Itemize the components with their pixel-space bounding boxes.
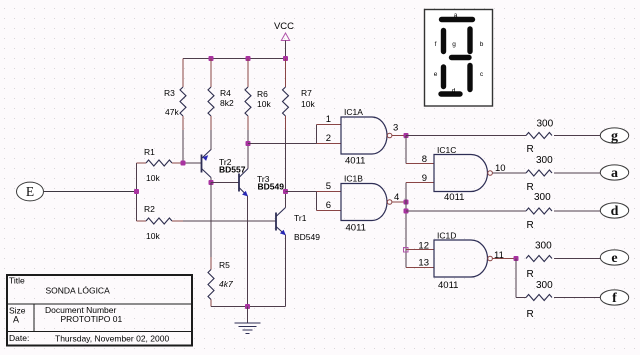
port e [600,250,628,265]
segment g [452,55,470,60]
pin 3 [392,135,406,137]
seven segment display [425,10,493,107]
port g [600,128,628,143]
resistor R6 10k [247,59,249,88]
pin 9 [406,182,434,184]
svg-text:R2: R2 [144,204,155,214]
port a [600,165,628,180]
svg-text:8: 8 [422,154,427,165]
svg-text:A: A [13,315,19,325]
wire E to node [44,191,137,193]
svg-text:300: 300 [536,155,553,166]
svg-text:R: R [527,269,534,280]
segment f [441,31,446,52]
svg-text:1: 1 [326,114,331,125]
svg-text:g: g [611,129,618,144]
resistor R3 47k [182,59,184,88]
nand gate IC1D 4011 [434,240,488,277]
wire top VCC rail [183,58,286,60]
junction pin12 square [404,248,409,253]
svg-text:IC1B: IC1B [344,174,363,184]
svg-text:d: d [611,204,619,219]
svg-text:Title: Title [9,276,25,286]
pin 12 [406,249,434,251]
resistor R1 10k [136,163,138,192]
svg-text:4011: 4011 [346,223,366,234]
port E [17,182,44,201]
svg-text:10k: 10k [146,173,160,183]
svg-text:a: a [611,166,618,181]
segment b [467,29,472,52]
svg-text:b: b [480,41,484,48]
svg-text:2: 2 [326,133,331,144]
svg-text:12: 12 [418,241,429,252]
svg-text:g: g [452,41,456,48]
pin 2 [317,143,342,145]
svg-text:R3: R3 [164,88,175,98]
svg-text:Tr1: Tr1 [294,213,307,223]
wire e/f drop [515,259,517,298]
junction row d [404,209,409,214]
ground [247,307,249,323]
svg-text:SONDA LÓGICA: SONDA LÓGICA [46,286,111,296]
title block [7,275,192,346]
nand gate IC1A 4011 [341,117,387,154]
svg-text:VCC: VCC [274,21,294,32]
wire VCC stub [285,41,287,59]
svg-text:IC1D: IC1D [437,231,456,241]
svg-text:E: E [26,184,34,199]
wire row d [406,210,526,212]
svg-text:3: 3 [393,123,398,134]
junction R3/R1/Tr2 base [181,161,186,166]
resistor R4 8k2 [210,59,212,88]
resistor 300 R (row d) [526,208,552,214]
svg-text:f: f [435,41,437,48]
wire node4 vertical [405,183,407,268]
resistor R5 4k7 [210,183,212,258]
junction rail/R4 [209,56,214,61]
svg-text:a: a [454,12,458,19]
svg-text:BD549: BD549 [294,232,320,242]
svg-text:f: f [612,291,617,306]
junction ground [245,304,250,309]
svg-text:R6: R6 [257,89,268,99]
svg-text:6: 6 [326,200,331,211]
pin 8 [406,163,434,165]
junction rail/R6 [246,56,251,61]
svg-text:R: R [527,220,534,231]
junction rail/VCC [283,56,288,61]
svg-text:300: 300 [534,192,551,203]
junction Tr2/Tr3/R5 [209,180,214,185]
svg-text:e: e [611,251,617,266]
svg-text:IC1C: IC1C [437,145,456,155]
resistor 300 R (row e) [526,256,552,262]
wire ground rail [211,306,286,308]
svg-text:47k: 47k [165,107,179,117]
wire pin3 node to pin 8 [405,136,407,164]
svg-text:9: 9 [422,173,427,184]
svg-text:R7: R7 [301,88,312,98]
transistor Tr3 BD549 [238,174,240,192]
resistor 300 R (row g) [526,133,552,139]
segment c [467,66,472,90]
segment e [441,67,446,87]
svg-text:10k: 10k [301,99,315,109]
wire node to IC1A inputs [248,143,317,145]
resistor R2 10k [136,192,138,222]
svg-text:4: 4 [394,192,399,203]
pin 4 [392,201,406,203]
svg-text:R4: R4 [220,88,231,98]
wire Tr2 collector to Tr3 base [211,182,239,184]
transistor Tr1 BD549 [275,213,277,231]
svg-text:R1: R1 [144,147,155,157]
junction R6/IC1A/Tr3 collector [246,141,251,146]
svg-text:R: R [527,182,534,193]
nand gate IC1C 4011 [434,155,488,192]
svg-text:R5: R5 [219,260,230,270]
port d [600,203,628,218]
wire row g [406,135,526,137]
svg-text:5: 5 [326,181,331,192]
junction pin3/row g/pin8 [404,133,409,138]
resistor R7 10k [285,59,287,88]
pin 6 [317,210,342,212]
junction e/f [514,256,519,261]
pin 11 [493,258,517,260]
svg-text:R: R [527,309,534,320]
svg-text:d: d [452,88,456,95]
junction pin4/pin9 [404,200,409,205]
svg-text:Thursday, November 02, 2000: Thursday, November 02, 2000 [55,334,169,344]
wire node to IC1B inputs [286,191,317,193]
svg-text:IC1A: IC1A [344,107,363,117]
transistor Tr2 BD557 [201,155,203,173]
svg-text:8k2: 8k2 [220,98,234,108]
svg-text:R: R [527,144,534,155]
svg-text:300: 300 [536,280,553,291]
port f [600,290,628,305]
svg-text:10: 10 [495,163,506,174]
svg-text:13: 13 [418,258,429,269]
nand gate IC1B 4011 [341,184,387,221]
svg-text:300: 300 [535,241,552,252]
pin 13 [406,267,434,269]
svg-text:300: 300 [537,119,554,130]
svg-text:11: 11 [494,250,504,261]
segment d [441,91,460,96]
svg-text:10k: 10k [257,99,271,109]
junction R7/IC1B/Tr1 collector [283,189,288,194]
svg-text:Date:: Date: [9,333,29,343]
svg-text:4011: 4011 [438,280,458,291]
svg-text:4011: 4011 [444,192,464,203]
svg-text:4k7: 4k7 [219,279,233,289]
svg-text:e: e [434,71,438,78]
svg-text:10k: 10k [146,231,160,241]
resistor 300 R (row f) [526,295,552,301]
svg-text:4011: 4011 [345,156,365,167]
svg-text:BD557: BD557 [219,165,246,175]
svg-text:BD549: BD549 [258,182,285,192]
pin 1 [317,124,342,126]
resistor 300 R (row a) [526,170,552,176]
pin 5 [317,191,342,193]
segment a [442,17,473,22]
svg-text:PROTOTIPO 01: PROTOTIPO 01 [61,314,123,324]
pin 10 [493,172,527,174]
